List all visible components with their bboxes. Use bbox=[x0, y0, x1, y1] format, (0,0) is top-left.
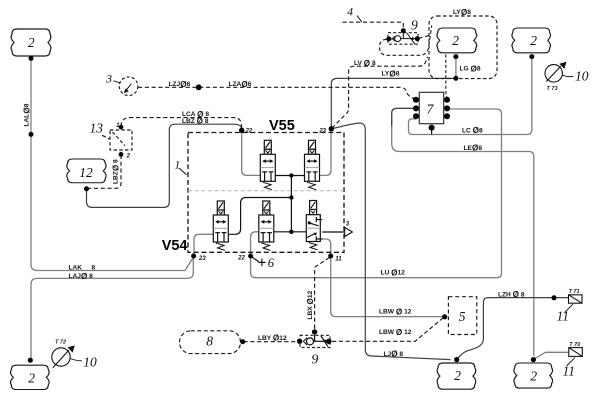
svg-text:2: 2 bbox=[530, 368, 537, 383]
svg-text:6: 6 bbox=[268, 256, 275, 270]
svg-text:LZH Ø 8: LZH Ø 8 bbox=[498, 290, 525, 299]
svg-text:23: 23 bbox=[318, 128, 326, 134]
svg-text:LYØ8: LYØ8 bbox=[453, 8, 471, 17]
svg-text:LC Ø8: LC Ø8 bbox=[462, 126, 483, 135]
svg-text:LBW Ø 12: LBW Ø 12 bbox=[379, 307, 412, 316]
svg-text:LAJØ 8: LAJØ 8 bbox=[69, 272, 94, 281]
svg-text:2: 2 bbox=[530, 33, 537, 48]
svg-text:LU Ø12: LU Ø12 bbox=[381, 268, 406, 277]
svg-text:2: 2 bbox=[28, 35, 35, 50]
svg-text:2: 2 bbox=[126, 154, 131, 160]
svg-text:10: 10 bbox=[83, 354, 97, 369]
svg-text:9: 9 bbox=[312, 352, 319, 367]
svg-text:2: 2 bbox=[452, 33, 459, 48]
svg-text:9: 9 bbox=[411, 18, 418, 33]
svg-text:12: 12 bbox=[79, 165, 93, 180]
svg-text:22: 22 bbox=[237, 255, 245, 261]
svg-text:LBY Ø12: LBY Ø12 bbox=[258, 334, 287, 343]
svg-text:V55: V55 bbox=[269, 118, 295, 134]
svg-text:LBZ Ø 8: LBZ Ø 8 bbox=[182, 117, 209, 126]
svg-text:5: 5 bbox=[459, 309, 466, 324]
svg-text:22: 22 bbox=[245, 129, 253, 135]
svg-text:8: 8 bbox=[206, 334, 213, 349]
svg-text:10: 10 bbox=[575, 69, 589, 84]
svg-text:LV Ø 8: LV Ø 8 bbox=[354, 59, 376, 68]
svg-text:11: 11 bbox=[335, 257, 342, 263]
svg-text:LAK: LAK bbox=[69, 264, 83, 271]
svg-text:2: 2 bbox=[28, 370, 35, 385]
svg-text:T 72: T 72 bbox=[55, 340, 66, 346]
svg-text:LYØ8: LYØ8 bbox=[382, 70, 400, 79]
svg-text:11: 11 bbox=[557, 308, 570, 323]
svg-text:LBZØ 8: LBZØ 8 bbox=[111, 159, 120, 184]
svg-text:2: 2 bbox=[454, 368, 461, 383]
svg-text:V54: V54 bbox=[162, 238, 188, 254]
svg-text:LG Ø8: LG Ø8 bbox=[460, 65, 481, 74]
svg-text:LZAØ6: LZAØ6 bbox=[229, 80, 252, 89]
svg-text:T 73: T 73 bbox=[547, 86, 558, 92]
svg-text:LEØ8: LEØ8 bbox=[464, 144, 483, 153]
svg-text:LBW Ø 12: LBW Ø 12 bbox=[379, 328, 412, 337]
svg-text:23: 23 bbox=[198, 256, 206, 262]
svg-text:T 70: T 70 bbox=[569, 342, 580, 348]
svg-text:T 71: T 71 bbox=[569, 289, 580, 295]
svg-text:LBX Ø12: LBX Ø12 bbox=[306, 290, 315, 319]
svg-text:13: 13 bbox=[90, 121, 104, 136]
svg-text:LZJØ6: LZJØ6 bbox=[169, 80, 191, 89]
svg-text:3: 3 bbox=[105, 72, 112, 86]
svg-text:LALØ8: LALØ8 bbox=[22, 103, 31, 126]
svg-text:LJØ 8: LJØ 8 bbox=[384, 350, 404, 359]
svg-text:4: 4 bbox=[347, 6, 353, 18]
svg-text:1: 1 bbox=[175, 159, 181, 171]
svg-text:8: 8 bbox=[92, 264, 96, 271]
svg-text:11: 11 bbox=[563, 363, 576, 378]
